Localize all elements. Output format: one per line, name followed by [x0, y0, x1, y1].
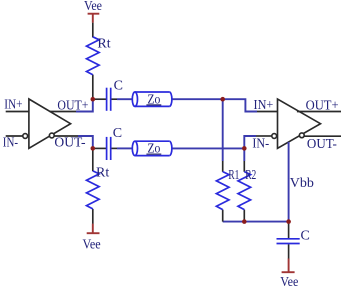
- svg-text:Rt: Rt: [96, 166, 109, 181]
- svg-text:Vee: Vee: [84, 0, 102, 14]
- svg-text:OUT+: OUT+: [57, 99, 88, 114]
- svg-text:Rt: Rt: [97, 37, 110, 52]
- svg-text:Vee: Vee: [280, 275, 298, 290]
- svg-text:OUT-: OUT-: [54, 135, 86, 150]
- svg-text:IN-: IN-: [3, 136, 18, 151]
- svg-text:Vbb: Vbb: [290, 176, 314, 191]
- svg-text:OUT-: OUT-: [307, 137, 337, 152]
- svg-text:R2: R2: [245, 168, 256, 183]
- svg-text:IN+: IN+: [4, 97, 22, 112]
- svg-text:OUT+: OUT+: [306, 98, 339, 113]
- svg-text:Vee: Vee: [83, 237, 101, 252]
- svg-text:C: C: [114, 78, 123, 93]
- svg-text:C: C: [301, 228, 310, 243]
- svg-text:R1: R1: [228, 168, 239, 183]
- svg-text:IN-: IN-: [252, 136, 269, 151]
- svg-text:C: C: [113, 126, 122, 141]
- svg-text:IN+: IN+: [254, 98, 274, 113]
